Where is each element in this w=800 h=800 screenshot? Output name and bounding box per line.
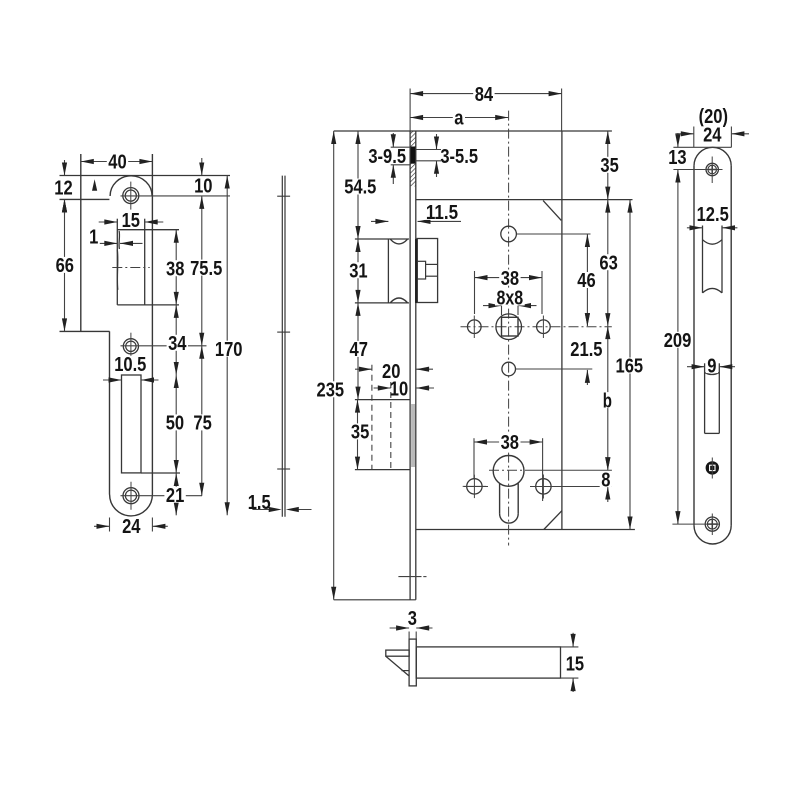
svg-text:35: 35 xyxy=(600,155,618,177)
svg-text:24: 24 xyxy=(703,125,722,147)
svg-text:38: 38 xyxy=(166,258,184,280)
svg-text:170: 170 xyxy=(215,339,243,361)
svg-text:21.5: 21.5 xyxy=(570,339,602,361)
svg-text:38: 38 xyxy=(501,268,519,290)
svg-text:15: 15 xyxy=(122,210,140,232)
svg-text:63: 63 xyxy=(599,252,617,274)
svg-text:75: 75 xyxy=(193,413,211,435)
svg-text:1.5: 1.5 xyxy=(248,492,271,514)
svg-text:38: 38 xyxy=(501,432,519,454)
svg-text:a: a xyxy=(454,108,464,130)
svg-text:50: 50 xyxy=(166,413,184,435)
svg-text:12.5: 12.5 xyxy=(697,204,729,226)
svg-text:3: 3 xyxy=(408,608,417,630)
svg-text:40: 40 xyxy=(108,152,126,174)
svg-text:1: 1 xyxy=(89,226,98,248)
svg-text:235: 235 xyxy=(317,380,345,402)
svg-text:209: 209 xyxy=(664,330,692,352)
svg-text:3-9.5: 3-9.5 xyxy=(368,146,406,168)
svg-text:12: 12 xyxy=(54,178,72,200)
svg-text:3-5.5: 3-5.5 xyxy=(440,146,478,168)
svg-text:47: 47 xyxy=(350,339,368,361)
svg-text:34: 34 xyxy=(168,333,187,355)
svg-text:13: 13 xyxy=(668,147,686,169)
svg-text:54.5: 54.5 xyxy=(344,177,376,199)
svg-text:31: 31 xyxy=(349,260,367,282)
svg-text:35: 35 xyxy=(351,422,369,444)
svg-text:66: 66 xyxy=(56,255,74,277)
svg-text:165: 165 xyxy=(616,356,644,378)
svg-text:46: 46 xyxy=(577,270,595,292)
svg-text:10: 10 xyxy=(194,175,212,197)
svg-text:15: 15 xyxy=(566,654,584,676)
svg-text:8x8: 8x8 xyxy=(496,288,523,310)
svg-text:9: 9 xyxy=(707,355,716,377)
svg-text:10.5: 10.5 xyxy=(114,354,146,376)
svg-text:11.5: 11.5 xyxy=(426,202,458,224)
svg-text:b: b xyxy=(603,390,612,412)
svg-text:24: 24 xyxy=(122,516,141,538)
svg-text:75.5: 75.5 xyxy=(190,258,222,280)
svg-text:8: 8 xyxy=(601,469,610,491)
svg-text:21: 21 xyxy=(166,485,184,507)
svg-text:10: 10 xyxy=(390,378,408,400)
svg-text:84: 84 xyxy=(475,84,494,106)
